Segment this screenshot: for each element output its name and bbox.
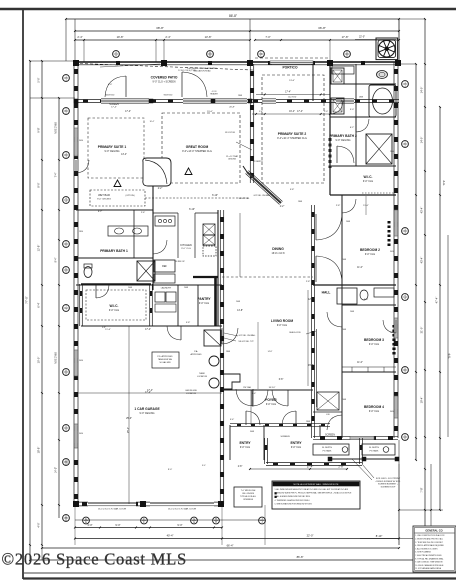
svg-text:17'-4": 17'-4" — [111, 107, 117, 109]
svg-text:22'-0": 22'-0" — [359, 36, 365, 39]
svg-text:2868: 2868 — [226, 351, 230, 353]
svg-text:77'-0": 77'-0" — [25, 296, 29, 304]
svg-text:13'-8": 13'-8" — [205, 35, 212, 39]
svg-text:P.D. APPROVED: P.D. APPROVED — [157, 355, 173, 358]
svg-text:SCREEN ELEMENT +: SCREEN ELEMENT + — [378, 484, 399, 486]
svg-text:10'-0": 10'-0" — [37, 357, 41, 364]
svg-text:GYP. BD. ON WALL: GYP. BD. ON WALL — [254, 194, 271, 197]
svg-text:6'-8": 6'-8" — [279, 379, 284, 381]
svg-text:NOE 2Y60: NOE 2Y60 — [55, 352, 58, 364]
svg-text:SHELF+ROD: SHELF+ROD — [289, 332, 301, 334]
svg-text:2. MONITORS AND PROTECT ALL: 2. MONITORS AND PROTECT ALL — [415, 538, 443, 541]
svg-text:PW CAB: PW CAB — [243, 386, 251, 389]
svg-text:11. KITCHEN AND BATH FINISH: 11. KITCHEN AND BATH FINISH — [415, 567, 442, 570]
svg-text:2668: 2668 — [346, 221, 350, 223]
svg-text:NOTE: ALL EXTERIOR WALL / WIND: NOTE: ALL EXTERIOR WALL / WINDOW NOTE — [294, 483, 340, 486]
svg-text:W.I.C.: W.I.C. — [110, 304, 119, 308]
svg-text:18'-8": 18'-8" — [37, 447, 41, 454]
svg-text:6'-10": 6'-10" — [212, 195, 218, 197]
svg-text:12 x 12 TRAY: 12 x 12 TRAY — [226, 155, 239, 158]
svg-text:16'-4": 16'-4" — [289, 111, 295, 113]
svg-text:17'-4": 17'-4" — [145, 329, 151, 331]
svg-text:3050: 3050 — [79, 360, 83, 362]
svg-text:TYP: TYP — [448, 353, 452, 358]
svg-text:COVERED PATIO: COVERED PATIO — [151, 76, 178, 80]
svg-text:15'-0": 15'-0" — [207, 111, 213, 113]
svg-text:2. WINDOW SIZES PER FL. PRODU: 2. WINDOW SIZES PER FL. PRODUCT APPROVAL… — [275, 492, 353, 495]
svg-text:16'-8 x 10'-8: 16'-8 x 10'-8 — [271, 252, 285, 255]
svg-text:2668: 2668 — [342, 329, 346, 331]
svg-text:2668: 2668 — [350, 311, 354, 313]
svg-text:6'-2": 6'-2" — [98, 211, 103, 213]
svg-text:ENTRY: ENTRY — [239, 441, 251, 445]
svg-text:5/8 GYP BD: 5/8 GYP BD — [225, 132, 236, 134]
svg-text:40'-4": 40'-4" — [167, 534, 174, 538]
svg-text:31'-0": 31'-0" — [420, 327, 424, 334]
svg-text:1. ALL WINDOW HDR HEIGHTS TO: 1. ALL WINDOW HDR HEIGHTS TO BE AT 8'-0"… — [275, 488, 349, 491]
svg-text:NOE 2Y60: NOE 2Y60 — [55, 122, 58, 134]
svg-text:FG TANK: FG TANK — [370, 450, 379, 453]
svg-text:3050: 3050 — [390, 332, 394, 334]
svg-text:7'-0": 7'-0" — [265, 35, 270, 39]
svg-text:G: G — [193, 521, 195, 524]
svg-text:9'-0" CLG: 9'-0" CLG — [240, 446, 250, 449]
svg-text:8'-0": 8'-0" — [37, 182, 41, 187]
svg-text:5'-8": 5'-8" — [290, 189, 295, 191]
svg-text:14'-0": 14'-0" — [420, 137, 424, 144]
svg-text:10-0 SGD: 10-0 SGD — [288, 97, 297, 99]
svg-text:2868: 2868 — [298, 201, 302, 203]
svg-text:9'-0" CLG: 9'-0" CLG — [291, 446, 301, 449]
svg-text:22'-0": 22'-0" — [307, 534, 314, 538]
svg-text:CEILING: CEILING — [228, 159, 236, 161]
svg-text:PANTRY: PANTRY — [197, 297, 211, 301]
svg-text:TYP: TYP — [442, 180, 446, 185]
svg-text:2'-2": 2'-2" — [280, 206, 285, 208]
svg-text:6. SITE PLUMBING: 6. SITE PLUMBING — [415, 552, 431, 554]
svg-text:36 REF SP: 36 REF SP — [175, 261, 185, 263]
svg-text:12'-0": 12'-0" — [308, 299, 314, 301]
svg-text:2868: 2868 — [306, 421, 310, 423]
svg-text:DINING: DINING — [272, 247, 284, 251]
svg-text:FOYER: FOYER — [265, 398, 277, 402]
svg-text:9'-0": 9'-0" — [168, 469, 173, 471]
svg-text:5'-0": 5'-0" — [37, 77, 41, 82]
svg-text:SCR. ENCL. FOOTPRINT: SCR. ENCL. FOOTPRINT — [376, 478, 401, 480]
svg-text:INSULATION ROAD: INSULATION ROAD — [193, 70, 211, 73]
svg-text:4'-0": 4'-0" — [37, 522, 41, 527]
svg-text:16'-4": 16'-4" — [150, 121, 155, 123]
svg-text:3. "ROB" MIN 2500 PSI CONCRE: 3. "ROB" MIN 2500 PSI CONCRET — [415, 542, 443, 544]
svg-text:©2026 Space Coast MLS: ©2026 Space Coast MLS — [2, 550, 188, 569]
svg-text:2850: 2850 — [79, 231, 83, 233]
svg-text:9'-4": 9'-4" — [55, 257, 58, 262]
svg-text:PRIMARY SUITE 2: PRIMARY SUITE 2 — [278, 132, 307, 136]
svg-text:3050: 3050 — [79, 140, 83, 142]
svg-text:3. ALL EGRESS WINDOWS PER FBC: 3. ALL EGRESS WINDOWS PER FBC R310 — [275, 495, 311, 498]
svg-text:17'-8": 17'-8" — [342, 35, 349, 39]
svg-text:2468: 2468 — [236, 301, 240, 303]
svg-text:1'-0": 1'-0" — [324, 111, 328, 113]
svg-text:2850: 2850 — [390, 151, 394, 153]
svg-text:9'-0" CEILING: 9'-0" CEILING — [140, 412, 155, 415]
svg-text:GREAT ROOM: GREAT ROOM — [186, 145, 209, 149]
svg-text:9'-8": 9'-8" — [37, 127, 41, 132]
svg-text:66'-4": 66'-4" — [227, 544, 234, 548]
svg-text:9'-0" CLG: 9'-0" CLG — [369, 410, 379, 413]
svg-text:14'-8": 14'-8" — [268, 351, 273, 353]
svg-text:8. TYPICAL FBC DRAWINGS SEAL: 8. TYPICAL FBC DRAWINGS SEAL — [415, 557, 443, 560]
svg-text:3068: 3068 — [250, 431, 254, 433]
svg-text:TANK: TANK — [199, 372, 205, 375]
svg-text:19'-4": 19'-4" — [420, 397, 424, 404]
svg-text:19'-8": 19'-8" — [117, 35, 124, 39]
svg-text:6'-4": 6'-4" — [37, 302, 41, 307]
svg-text:PRIMARY BATH 2: PRIMARY BATH 2 — [329, 134, 357, 138]
svg-text:11'-4": 11'-4" — [105, 329, 111, 331]
svg-text:9'-0": 9'-0" — [177, 523, 182, 527]
svg-text:(OPTION): (OPTION) — [126, 195, 135, 197]
svg-text:3'-0": 3'-0" — [350, 109, 355, 111]
svg-text:9'-0" CEILING: 9'-0" CEILING — [97, 199, 111, 201]
svg-text:BEDROOM 3: BEDROOM 3 — [364, 338, 384, 342]
svg-text:SCREEN: SCREEN — [109, 104, 119, 106]
svg-text:TYPICAL FOR ALL: TYPICAL FOR ALL — [240, 495, 256, 498]
svg-text:PRIMARY BATH 1: PRIMARY BATH 1 — [100, 249, 128, 253]
svg-text:9'-0": 9'-0" — [115, 523, 120, 527]
svg-text:9'-0" CEILING: 9'-0" CEILING — [105, 150, 120, 153]
svg-text:14'-8": 14'-8" — [237, 310, 243, 312]
svg-text:2'-6": 2'-6" — [141, 212, 146, 214]
svg-text:20'-8": 20'-8" — [229, 107, 235, 109]
svg-text:9'-0" CLG: 9'-0" CLG — [363, 180, 373, 183]
svg-text:SL DEPTH: SL DEPTH — [322, 447, 333, 449]
svg-text:17'-4": 17'-4" — [297, 111, 303, 113]
svg-text:9'-0" CLG: 9'-0" CLG — [181, 248, 191, 250]
svg-text:2668: 2668 — [342, 399, 346, 401]
svg-text:16-0 x 8-0 O.H. GAR. DOOR: 16-0 x 8-0 O.H. GAR. DOOR — [168, 508, 196, 511]
svg-text:5. ALL EXCEED E.G. UNITS: 5. ALL EXCEED E.G. UNITS — [415, 547, 438, 550]
svg-text:7. ELECTRICAL PERMITS FILED: 7. ELECTRICAL PERMITS FILED — [415, 554, 442, 557]
svg-text:LAUNDRY: LAUNDRY — [161, 287, 172, 290]
svg-text:2468: 2468 — [128, 287, 132, 289]
svg-text:SCREEN: SCREEN — [280, 436, 290, 438]
svg-text:9'-0"+13'-0" STEPPED CLG: 9'-0"+13'-0" STEPPED CLG — [182, 150, 212, 153]
svg-text:14'-0": 14'-0" — [55, 467, 58, 473]
svg-text:6068 SGD: 6068 SGD — [106, 95, 115, 97]
svg-text:10. FIELD CHANGES NOTED AS B: 10. FIELD CHANGES NOTED AS B — [415, 564, 444, 567]
svg-text:FG TANK: FG TANK — [323, 450, 332, 453]
svg-text:9'-0" CLG: 9'-0" CLG — [199, 302, 209, 305]
svg-text:ENTRY: ENTRY — [290, 441, 302, 445]
svg-text:9'-0" CLG: 9'-0" CLG — [266, 403, 276, 406]
svg-text:2'-4": 2'-4" — [77, 35, 82, 39]
svg-text:GYP. BD. ON WALL: GYP. BD. ON WALL — [239, 334, 256, 337]
svg-text:WET BAR: WET BAR — [98, 193, 110, 197]
svg-text:2'-8": 2'-8" — [336, 205, 341, 207]
svg-text:9'-0" CLG: 9'-0" CLG — [365, 253, 375, 256]
svg-text:9'-0" CEILING: 9'-0" CEILING — [336, 139, 351, 142]
svg-text:7'-8": 7'-8" — [420, 487, 424, 492]
svg-text:W.I.C.: W.I.C. — [364, 175, 373, 179]
svg-text:GENERAL CO: GENERAL CO — [425, 528, 442, 532]
svg-text:9'-0" CLG: 9'-0" CLG — [109, 309, 119, 312]
svg-text:4 SIDED SCREEN W/ SCR.: 4 SIDED SCREEN W/ SCR. — [375, 481, 400, 483]
svg-text:4. PER FL APPROVALS REQUIRED: 4. PER FL APPROVALS REQUIRED — [415, 544, 444, 547]
svg-text:5'-8": 5'-8" — [186, 322, 191, 324]
svg-text:1 CAR GARAGE: 1 CAR GARAGE — [134, 407, 160, 411]
svg-text:8'-10": 8'-10" — [376, 534, 383, 538]
svg-text:6'-10": 6'-10" — [189, 209, 195, 211]
svg-text:3'-4": 3'-4" — [252, 393, 257, 395]
svg-text:9'-0" CLG: 9'-0" CLG — [277, 324, 287, 327]
svg-text:1. USE CONSTRUCTION IN ACCOR: 1. USE CONSTRUCTION IN ACCOR — [415, 534, 445, 537]
svg-text:6'-2": 6'-2" — [350, 127, 355, 129]
svg-text:14'-0": 14'-0" — [420, 87, 424, 94]
svg-text:2'-4": 2'-4" — [165, 35, 170, 39]
svg-text:APPROVED: APPROVED — [190, 353, 202, 356]
svg-text:8'-0": 8'-0" — [202, 465, 206, 467]
svg-text:16'-10": 16'-10" — [269, 387, 276, 389]
svg-text:11'-0": 11'-0" — [357, 362, 363, 364]
svg-text:REF: REF — [162, 265, 167, 268]
svg-text:D: D — [346, 55, 348, 58]
svg-text:PORTICO: PORTICO — [282, 66, 297, 70]
svg-text:17'-4": 17'-4" — [285, 92, 291, 94]
svg-text:17'-4": 17'-4" — [125, 111, 131, 113]
svg-text:17'-4": 17'-4" — [147, 390, 153, 392]
svg-text:3050: 3050 — [390, 411, 394, 413]
svg-text:LIN.: LIN. — [326, 414, 330, 416]
svg-text:7'-4": 7'-4" — [55, 172, 58, 177]
svg-text:KITCHEN: KITCHEN — [180, 243, 192, 247]
svg-text:CELL 8'HDRS: CELL 8'HDRS — [242, 493, 255, 495]
svg-text:42 PANTRY: 42 PANTRY — [253, 160, 264, 163]
svg-text:1'-4": 1'-4" — [259, 111, 263, 113]
svg-text:9068 SGD: 9068 SGD — [164, 95, 173, 97]
svg-text:9. DAY CONSULT. TIME WINDOW: 9. DAY CONSULT. TIME WINDOW — [415, 561, 443, 564]
svg-text:11'-0": 11'-0" — [357, 267, 363, 269]
svg-text:5'-0": 5'-0" — [364, 299, 369, 301]
svg-text:SL DEPTH: SL DEPTH — [369, 447, 380, 449]
svg-text:LOCATION: LOCATION — [197, 375, 208, 378]
svg-text:2868: 2868 — [359, 97, 363, 99]
svg-text:TANKLESS WH: TANKLESS WH — [158, 358, 173, 361]
svg-text:9'-4"+10'-4" STEPPED CLG: 9'-4"+10'-4" STEPPED CLG — [277, 137, 307, 140]
svg-text:86'-8": 86'-8" — [297, 555, 304, 559]
svg-text:HALL: HALL — [322, 291, 331, 295]
svg-text:9'-0" CLG: 9'-0" CLG — [369, 343, 379, 346]
svg-text:50 GAL MIN: 50 GAL MIN — [160, 361, 171, 364]
svg-text:38'-8": 38'-8" — [156, 26, 164, 30]
svg-text:HEADER: HEADER — [210, 92, 218, 95]
svg-text:2868: 2868 — [238, 95, 242, 97]
svg-text:4'-0": 4'-0" — [108, 84, 113, 86]
svg-text:7'-0" MIN FLUSH: 7'-0" MIN FLUSH — [241, 490, 256, 492]
svg-text:GEN IN-USE: GEN IN-USE — [185, 390, 197, 392]
svg-text:3'-0": 3'-0" — [87, 523, 92, 527]
svg-text:12 SQ COLS (TYP): 12 SQ COLS (TYP) — [178, 70, 196, 72]
svg-text:BEDROOM 4: BEDROOM 4 — [364, 405, 384, 409]
svg-text:13'-4": 13'-4" — [121, 154, 127, 156]
svg-text:SCREEN: SCREEN — [325, 434, 335, 437]
svg-text:H: H — [215, 521, 217, 524]
svg-text:15'-8": 15'-8" — [308, 365, 314, 367]
svg-text:2668: 2668 — [342, 259, 346, 261]
svg-text:43'-4": 43'-4" — [420, 207, 424, 214]
svg-text:3050: 3050 — [79, 433, 83, 435]
svg-text:43'-4": 43'-4" — [420, 257, 424, 264]
svg-text:LIVING ROOM: LIVING ROOM — [271, 319, 293, 323]
svg-text:12'-8": 12'-8" — [37, 245, 41, 252]
svg-text:SCREEN ROOF: SCREEN ROOF — [381, 486, 396, 488]
svg-text:4. TEMPERED GLAZING PER FBC R: 4. TEMPERED GLAZING PER FBC R308.4 — [275, 499, 310, 502]
svg-text:2468: 2468 — [184, 287, 188, 289]
svg-text:5'-4": 5'-4" — [230, 419, 235, 421]
svg-text:2'-2": 2'-2" — [158, 188, 163, 190]
svg-text:47'-4": 47'-4" — [435, 297, 439, 304]
svg-text:16-0 x 8-0 O.H. GAR. DOOR: 16-0 x 8-0 O.H. GAR. DOOR — [98, 508, 126, 511]
svg-text:2'-8": 2'-8" — [306, 281, 311, 283]
svg-text:2'-8": 2'-8" — [238, 466, 243, 468]
svg-text:13'-6": 13'-6" — [289, 80, 295, 82]
svg-text:C: C — [260, 55, 262, 58]
svg-text:3050: 3050 — [390, 251, 394, 253]
svg-text:PRIMARY SUITE 1: PRIMARY SUITE 1 — [98, 145, 127, 149]
svg-text:5/8 GYP. BD.: 5/8 GYP. BD. — [238, 198, 250, 200]
svg-text:6'-8": 6'-8" — [102, 327, 106, 329]
svg-text:36'-8": 36'-8" — [318, 26, 326, 30]
svg-text:BEDROOM 2: BEDROOM 2 — [360, 248, 380, 252]
svg-text:OPENINGS: OPENINGS — [243, 499, 254, 501]
svg-text:5. SEE ELEVATIONS FOR WINDOW: 5. SEE ELEVATIONS FOR WINDOW STYLES — [275, 502, 313, 505]
svg-text:LOCATION: LOCATION — [186, 392, 197, 395]
svg-text:5/8 GYP. BD. TYP: 5/8 GYP. BD. TYP — [238, 341, 254, 343]
svg-text:P.A.: P.A. — [194, 350, 198, 353]
svg-text:9'-0" CLG + SCREEN: 9'-0" CLG + SCREEN — [152, 80, 175, 83]
svg-text:86'-8": 86'-8" — [229, 14, 237, 18]
